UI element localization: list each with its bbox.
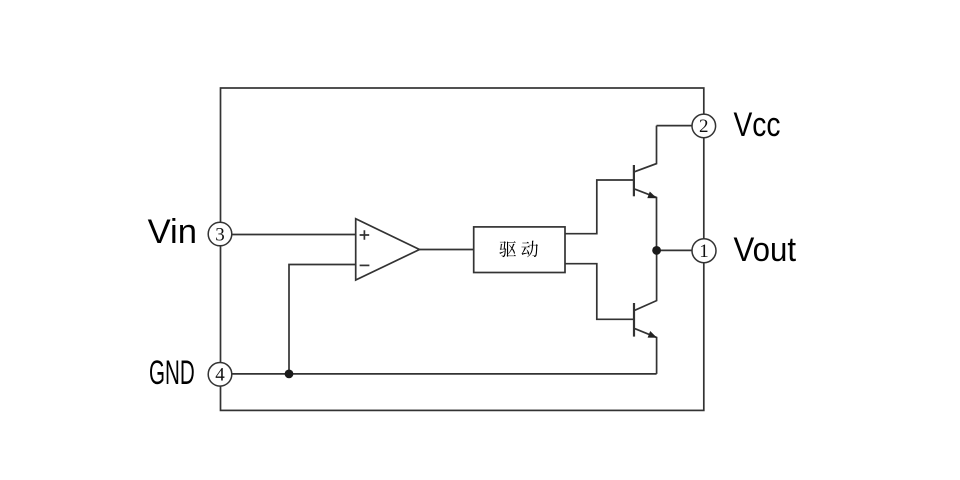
svg-text:1: 1 xyxy=(699,241,709,262)
wire drive bottom output to Q2 base xyxy=(565,264,634,320)
svg-text:Vcc: Vcc xyxy=(734,106,781,144)
wire Vin pin3 to op-amp + input xyxy=(232,234,356,236)
svg-text:Vout: Vout xyxy=(734,231,797,269)
svg-text:2: 2 xyxy=(699,116,709,137)
wire drive top output to Q1 base xyxy=(565,180,634,234)
IC outline box xyxy=(221,88,704,410)
drive block 驱动 xyxy=(474,227,565,273)
transistor Q2 base bar xyxy=(633,303,635,337)
transistor Q2 emitter xyxy=(634,328,657,374)
pin 1 circle xyxy=(692,239,716,263)
transistor Q2 emitter arrowhead xyxy=(648,331,657,338)
drive block label glyph 动 xyxy=(521,241,538,258)
transistor Q1 base bar xyxy=(633,165,635,196)
transistor Q1 emitter xyxy=(634,189,657,251)
svg-text:3: 3 xyxy=(215,224,225,245)
op-amp U1 minus sign xyxy=(360,264,370,266)
pin 2 circle xyxy=(692,114,716,138)
wire output node to Vout pin1 xyxy=(657,249,692,251)
wire op-amp output to drive block xyxy=(420,249,474,251)
svg-text:4: 4 xyxy=(215,365,225,386)
drive block label glyph 驱 xyxy=(499,241,516,257)
op-amp U1 plus sign xyxy=(360,230,370,240)
transistor Q1 emitter arrowhead xyxy=(647,192,657,199)
op-amp U1 xyxy=(356,219,420,280)
junction dot output node xyxy=(652,246,661,255)
transistor Q2 collector xyxy=(634,250,657,310)
pin 3 circle xyxy=(208,222,232,246)
transistor Q1 collector xyxy=(634,126,657,172)
svg-text:GND: GND xyxy=(149,354,195,392)
junction dot inverting feedback on GND rail xyxy=(285,370,294,379)
wire Q1 collector to Vcc pin2 xyxy=(657,125,692,127)
wire inverting input xyxy=(289,265,356,374)
svg-text:Vin: Vin xyxy=(148,213,197,251)
pin 4 circle xyxy=(208,363,232,387)
wire GND rail pin4 to Q2 emitter xyxy=(232,373,657,375)
